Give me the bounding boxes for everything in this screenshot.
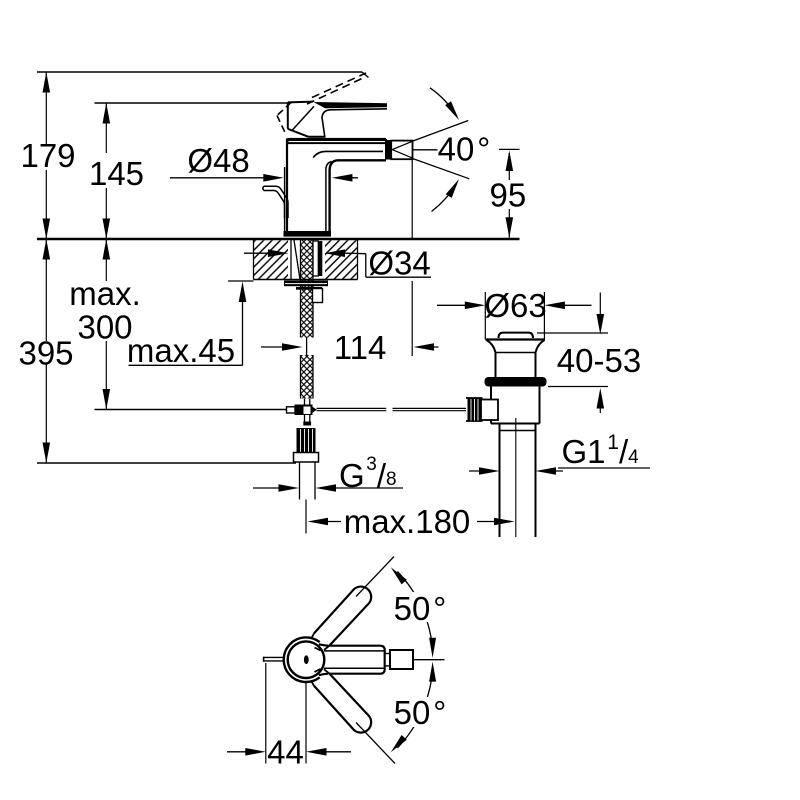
counter/mounting surface line <box>37 238 520 241</box>
mask behind lower 50deg label <box>394 697 452 727</box>
shank white rect in slab <box>313 241 318 276</box>
upper lever neck right <box>324 646 329 650</box>
locknut flange under slab <box>284 281 328 287</box>
stub line below fitting left <box>304 415 306 422</box>
rod guide line along body <box>284 167 286 231</box>
ext line right (63) <box>543 292 545 340</box>
nozzle inner upper line <box>392 142 412 150</box>
spout inner top line <box>324 650 384 652</box>
40deg leader line right <box>499 148 520 150</box>
push button top <box>499 333 534 338</box>
waste lower body left side <box>490 387 492 424</box>
dashed raised lever lower edge <box>307 79 362 105</box>
dim line 145/max300 middle <box>105 188 107 281</box>
knob bottom cap line <box>466 420 483 422</box>
arrow left at tailpipe right wall <box>536 467 557 475</box>
horizontal hose lower line mid <box>317 410 387 412</box>
lever left edge <box>287 102 289 128</box>
max180 right tail <box>477 521 510 523</box>
tick lower inner joint <box>315 669 321 672</box>
hose right border lower <box>312 355 314 399</box>
lever inner diagonal edge <box>292 106 315 131</box>
lever top-left edge <box>288 101 313 104</box>
lever blade filled <box>314 102 388 108</box>
hose left border upper <box>300 240 302 338</box>
body/spout top cap band <box>287 138 386 144</box>
upper arc arrowhead at centre line <box>429 638 436 658</box>
nozzle box <box>391 141 412 160</box>
arrow down at counter (95) <box>506 217 514 238</box>
dim G1 left tail <box>469 470 494 472</box>
bottom stub dark cap <box>303 422 311 426</box>
stub line below fitting right <box>309 415 311 422</box>
dim G1 right tail <box>540 470 563 472</box>
dim 44 left tail <box>227 751 261 753</box>
dim line 179 upper segment <box>45 72 47 144</box>
arrow up at flange bottom (40-53) <box>597 388 605 409</box>
dim line 395 lower segment <box>45 364 47 463</box>
svg-text:Ø63: Ø63 <box>484 287 546 324</box>
arrow up at counter (max300) <box>103 239 111 260</box>
arrow down at counter (145) <box>103 219 111 240</box>
arrowhead on upper spray line <box>445 101 459 120</box>
lower lever neck right <box>324 669 329 673</box>
svg-text:395: 395 <box>18 335 73 372</box>
hatched counter section left <box>254 240 289 279</box>
stub line above fitting left <box>304 399 306 405</box>
G3/8 pipe left wall <box>299 462 301 500</box>
dashed raised lever lower-left edge <box>277 116 286 135</box>
lower 50deg diagonal line <box>356 723 395 764</box>
dim 40-53 lower shaft <box>599 402 601 413</box>
arrow right at hole left wall (34) <box>268 249 289 257</box>
lever bottom-left cut <box>288 129 309 137</box>
dim G3/8 left tail <box>253 487 294 489</box>
dim 34 underline <box>366 276 431 278</box>
svg-text:44: 44 <box>267 734 304 771</box>
ext line left (44) <box>265 663 267 764</box>
spout thread neck <box>385 654 390 666</box>
max.45 underline <box>129 364 243 366</box>
pop-up rod inner line <box>264 191 285 219</box>
locknut lower collar <box>296 287 322 290</box>
lower 50deg arc <box>397 669 432 748</box>
arrow left at right ext (44) <box>306 748 327 756</box>
dim line 179/395 middle segments <box>45 170 47 341</box>
arrow up at 145 ref line <box>103 103 111 124</box>
arrow right at body left edge (48) <box>263 174 284 182</box>
base plate on counter <box>284 231 332 237</box>
svg-text:95: 95 <box>490 176 527 213</box>
dim 34 leader riser <box>365 254 367 278</box>
svg-text:40 °: 40 ° <box>438 131 491 168</box>
svg-text:Ø48: Ø48 <box>187 142 249 179</box>
spout inner line <box>313 151 383 157</box>
ext line button top (40-53) <box>537 332 608 334</box>
pop-up rod outer line <box>264 186 288 218</box>
dim 63 right tail <box>563 304 592 306</box>
slab bottom line <box>254 279 358 281</box>
top view body circle <box>288 641 325 678</box>
hatched counter section right <box>325 240 358 279</box>
spray upper boundary line <box>413 121 468 142</box>
dim 114 right tail <box>418 346 439 348</box>
lower lever grip <box>314 673 371 732</box>
upper 50deg diagonal line <box>356 557 394 597</box>
dashed raised lever upper edge <box>312 73 366 98</box>
tailpipe centre line <box>515 418 517 537</box>
top view collar arc <box>284 637 320 682</box>
arc arrow lower (40deg) <box>432 184 457 212</box>
svg-text:50 °: 50 ° <box>394 694 447 731</box>
svg-text:Ø34: Ø34 <box>368 244 430 281</box>
svg-text:max.45: max.45 <box>127 332 235 369</box>
hose gap thin line <box>306 337 308 356</box>
lever blade underside and neck <box>322 109 387 137</box>
arrowhead on lower spray line <box>446 179 459 198</box>
tailpipe left wall <box>499 424 501 538</box>
G1 1/4 underline <box>558 467 650 469</box>
tick upper inner joint <box>315 648 321 651</box>
inner wall top curve <box>326 162 332 170</box>
hole left wall in slab <box>290 239 292 280</box>
arrow down at hose line (max300) <box>103 389 111 410</box>
dim 40-53 upper shaft <box>599 293 601 319</box>
ext line left (63) <box>484 292 486 340</box>
upper arc arrowhead at diagonal <box>391 567 407 584</box>
arrow left at hole right wall (34) <box>325 249 346 257</box>
shank dark bar in slab <box>319 241 323 276</box>
nozzle square top view <box>390 650 413 669</box>
mask behind upper 50deg label <box>392 592 452 622</box>
dim 44 right tail <box>311 751 351 753</box>
lower lever neck left <box>311 681 314 686</box>
horizontal hose upper line mid <box>317 407 387 409</box>
arrow right at waste centre (max180) <box>494 518 515 526</box>
arrow left at pipe right wall (G3/8) <box>316 484 337 492</box>
nozzle vertical extension line lower <box>411 281 413 356</box>
body left edge <box>286 139 288 232</box>
pipe centre extension line (max.180 left) <box>305 500 307 534</box>
arrow left at pipe centre (max180) <box>308 518 329 526</box>
nozzle separator dark band <box>387 140 391 160</box>
cap joint white line <box>289 141 386 143</box>
centre line right of nozzle <box>413 659 445 661</box>
dim 95 upper segment <box>508 153 510 180</box>
spout end edge <box>385 139 387 160</box>
locknut white joint line <box>285 283 327 285</box>
tailpipe groove line <box>500 430 536 432</box>
left tab end cap <box>263 657 265 662</box>
waste taper right <box>536 340 545 353</box>
horizontal hose lower line right <box>393 410 467 412</box>
arrow left at right ext (63) <box>544 302 565 310</box>
knob stem box <box>481 400 498 421</box>
svg-text:179: 179 <box>20 137 75 174</box>
slab left edge <box>253 239 255 280</box>
horizontal hose upper line right <box>393 407 467 409</box>
dim 114 left tail <box>261 346 298 348</box>
arc arrow upper (40deg) <box>430 88 457 116</box>
arrow up (95) <box>506 151 514 172</box>
dim 48 right tail <box>336 177 358 179</box>
connector nut <box>294 453 319 463</box>
waste body right side <box>535 353 537 378</box>
max180 left tail <box>312 521 341 523</box>
dim 34 right tail <box>329 252 346 254</box>
slab right edge <box>357 240 359 280</box>
upper lever grip <box>314 587 371 646</box>
top view spout outline <box>319 644 385 675</box>
svg-text:G1 1/4: G1 1/4 <box>562 431 640 470</box>
slab bottom extension line (max.45) <box>228 280 254 282</box>
arrow right at pipe left wall (G3/8) <box>279 484 300 492</box>
max.45 arrow up at slab bottom <box>239 282 247 303</box>
gasket diagonal line in slab <box>294 240 300 280</box>
nozzle inner lower line <box>392 150 412 158</box>
braided hose upper section <box>301 240 314 338</box>
dim 34 left tail <box>244 252 284 254</box>
svg-text:114: 114 <box>334 329 387 366</box>
arrow up at top ref line (179) <box>43 72 51 93</box>
spout bottom and body right edge <box>330 160 386 231</box>
svg-text:50 °: 50 ° <box>394 590 447 627</box>
knurled knob (black) <box>468 398 482 421</box>
waste counter flange ring (black) <box>485 377 547 387</box>
left tab upper line <box>264 656 284 658</box>
bottom ref line at hose end (395) <box>37 462 296 464</box>
dim 48 left tail <box>170 177 266 179</box>
ref line top of lever (179) <box>37 71 362 73</box>
ref line top of body lever (145) <box>95 102 289 104</box>
body right inner wall line <box>325 169 327 231</box>
upper lever neck left <box>311 633 314 639</box>
stub line above fitting right <box>309 399 311 405</box>
lower arc arrowhead at centre line <box>429 662 436 682</box>
lever bottom edge <box>309 136 326 138</box>
waste top flange line <box>486 338 546 340</box>
svg-text:40-53: 40-53 <box>557 342 641 379</box>
cross fitting white window <box>304 407 311 415</box>
dim 34 leader <box>346 252 366 255</box>
arrow right at hose centre (114) <box>282 343 303 351</box>
cross fitting left stub box <box>287 407 296 413</box>
ext line right (44) <box>305 682 307 764</box>
arrow down at bottom ref (395) <box>43 443 51 464</box>
nozzle vertical extension line upper <box>411 160 413 238</box>
arrow left at body right edge (48) <box>332 174 353 182</box>
cross fitting body (black) <box>295 405 313 416</box>
dim line max300 lower segment <box>105 341 107 410</box>
arrow right at left ext (63) <box>465 302 486 310</box>
pop-up rod end cap <box>262 186 265 190</box>
dashed raised lever left edge <box>277 103 291 116</box>
tailpipe right wall <box>535 424 537 538</box>
arrow down at button top (40-53) <box>597 314 605 335</box>
dim 63 left tail <box>437 304 466 306</box>
arrow down at counter (179) <box>43 219 51 240</box>
dim line 145 upper segment <box>105 103 107 153</box>
waste taper left <box>487 340 496 353</box>
knurled connector body <box>297 428 316 453</box>
horizontal rod single line left <box>95 409 288 411</box>
svg-text:max.: max. <box>69 275 141 312</box>
dim G3/8 right tail <box>320 487 403 489</box>
40deg leader line left <box>413 149 438 151</box>
dim 95 lower segment <box>508 209 510 238</box>
spray lower boundary line <box>413 159 469 179</box>
arrow left at nozzle ext line (114) <box>414 343 435 351</box>
waste body joint line <box>496 352 536 354</box>
knob top cap line <box>466 397 483 399</box>
arrow right at left ext (44) <box>245 748 265 756</box>
left tab lower line <box>264 660 284 662</box>
hose left border lower <box>300 355 302 399</box>
svg-text:300: 300 <box>77 309 132 346</box>
waste body left side <box>495 353 497 378</box>
upper 50deg arc <box>397 572 432 651</box>
G3/8 pipe right wall <box>314 462 316 500</box>
lower arc arrowhead at diagonal <box>391 735 407 752</box>
hose right border upper <box>312 240 314 338</box>
waste lower body right side <box>539 387 541 424</box>
svg-text:max.180: max.180 <box>344 503 471 540</box>
tip segment at end of top ref line <box>362 72 369 78</box>
svg-text:145: 145 <box>89 155 144 192</box>
braided hose lower section <box>301 355 314 399</box>
logo mark in circle <box>304 655 309 664</box>
arrow up at counter (395) <box>43 239 51 260</box>
ext line flange bottom (40-53) <box>548 386 608 388</box>
arrow right at tailpipe left wall <box>479 467 500 475</box>
spout inner bottom line <box>324 667 384 669</box>
fitting tab below locknut <box>313 289 323 303</box>
cross fitting right wedge <box>313 407 317 413</box>
max.45 leader riser <box>242 296 244 365</box>
waste lower body bottom edge <box>491 423 540 425</box>
